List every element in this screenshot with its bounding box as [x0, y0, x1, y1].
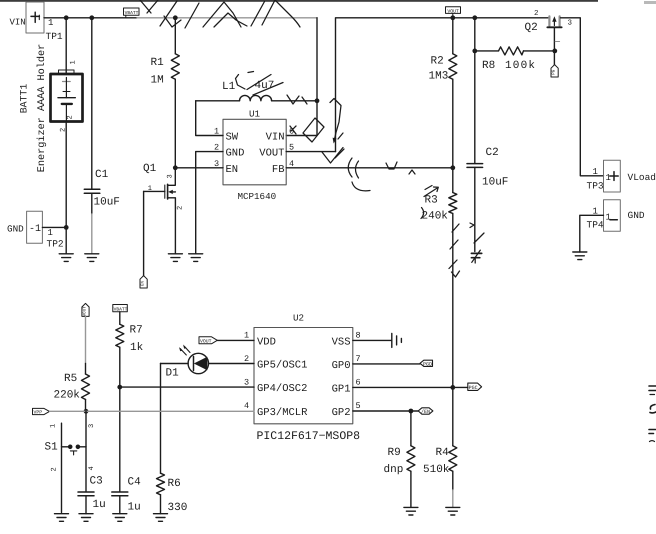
- svg-text:2: 2: [244, 354, 249, 364]
- resistor R4: [423, 446, 457, 508]
- svg-text:R1: R1: [151, 57, 165, 69]
- wire C2 bottom: [474, 167, 476, 251]
- wire scribble over 4u7: [236, 72, 284, 96]
- ground R6: [154, 514, 168, 522]
- net label VBATT above R7: [113, 305, 128, 313]
- svg-text:GP4/OSC2: GP4/OSC2: [257, 383, 307, 395]
- wire scribble arcs FB: [348, 158, 358, 178]
- resistor R6: [157, 364, 188, 515]
- svg-text:1M3: 1M3: [429, 71, 449, 83]
- svg-text:Energizer AAAA Holder: Energizer AAAA Holder: [36, 44, 48, 172]
- svg-text:2: 2: [534, 9, 539, 18]
- LED D1: [166, 345, 209, 380]
- svg-text:VOUT: VOUT: [200, 338, 212, 344]
- svg-text:1u: 1u: [128, 502, 141, 514]
- svg-text:TP2: TP2: [47, 238, 64, 249]
- wire TP4 to ground: [580, 215, 604, 252]
- right edge text fragments: [649, 386, 656, 442]
- node TP2: [64, 225, 69, 230]
- svg-text:3: 3: [88, 424, 96, 428]
- battery BATT1 pin 1 bracket: [59, 60, 78, 73]
- svg-text:3: 3: [167, 174, 175, 178]
- wire FB pin to divider: [286, 167, 453, 169]
- wire C2 top: [474, 18, 476, 164]
- wire Q1 gate to EN label: [143, 191, 145, 275]
- net flag VPP: [33, 408, 50, 415]
- wire SW pin to L1: [196, 101, 223, 136]
- svg-text:7: 7: [356, 354, 361, 364]
- wire scribble vee D: [164, 16, 181, 27]
- svg-text:FB: FB: [272, 164, 285, 176]
- wire C1 bottom stub: [91, 193, 93, 214]
- svg-text:/EN: /EN: [421, 409, 430, 415]
- wire scribble chevron G: [262, 0, 300, 27]
- resistor R9: [384, 411, 415, 507]
- ground Q1: [168, 254, 182, 262]
- testpoint TP3: [587, 160, 656, 192]
- scribble annotations: [140, 0, 484, 277]
- svg-text:R4: R4: [436, 447, 450, 459]
- resistor R2: [429, 18, 457, 168]
- node C1 top: [89, 15, 94, 20]
- svg-text:2: 2: [177, 206, 185, 210]
- resistor R5: [54, 364, 90, 412]
- net label VBATT top: [124, 8, 140, 18]
- svg-text:TP4: TP4: [587, 219, 604, 230]
- op-amp U1 MCP1640: [223, 109, 286, 203]
- wire scribble slash A: [140, 0, 151, 13]
- svg-text:10uF: 10uF: [94, 197, 120, 209]
- svg-text:Q2: Q2: [525, 22, 538, 34]
- svg-text:100k: 100k: [505, 60, 536, 72]
- node Q2 gate: [552, 49, 557, 54]
- wire VOUT net top: [336, 18, 549, 152]
- wire GND pin down: [196, 152, 223, 254]
- svg-text:GP5/OSC1: GP5/OSC1: [257, 360, 307, 372]
- wire battery top: [65, 18, 67, 74]
- svg-text:R6: R6: [168, 478, 181, 490]
- inductor L1: [196, 80, 317, 101]
- wire VOUT pin up: [286, 151, 335, 153]
- svg-text:R9: R9: [388, 447, 401, 459]
- svg-text:4: 4: [88, 466, 96, 470]
- wire GP5 through D1 to R6: [161, 363, 255, 365]
- testpoint TP2: [7, 211, 66, 249]
- svg-text:6: 6: [356, 377, 361, 387]
- svg-text:S1: S1: [45, 442, 59, 454]
- wire scribble arc below FB: [352, 182, 370, 191]
- svg-text:C4: C4: [128, 477, 142, 489]
- svg-text:GND: GND: [628, 210, 645, 221]
- svg-text:2: 2: [60, 128, 68, 132]
- svg-text:Q1: Q1: [143, 163, 157, 175]
- wire gray VPP net to GP3: [50, 410, 255, 412]
- ground TP4: [573, 252, 587, 260]
- svg-text:TP1: TP1: [46, 31, 63, 42]
- wire GP4 to R7: [120, 386, 254, 388]
- net label /EN: [418, 408, 433, 415]
- svg-text:1: 1: [606, 213, 611, 223]
- net label EN vertical: [140, 276, 147, 288]
- node R2 top: [450, 15, 455, 20]
- svg-text:3: 3: [244, 377, 249, 387]
- svg-text:VPP: VPP: [34, 410, 43, 416]
- svg-text:TP3: TP3: [587, 181, 604, 192]
- wire gray C1 to ground: [91, 214, 93, 254]
- net label VOUT vertical above R5: [82, 303, 89, 316]
- svg-text:330: 330: [168, 502, 188, 514]
- wire GP2 to /EN label: [353, 410, 418, 412]
- svg-text:PIC12F617−MSOP8: PIC12F617−MSOP8: [257, 430, 361, 443]
- wire scribble check VOUT pin: [322, 148, 343, 164]
- wire scribble slash B: [147, 0, 158, 13]
- svg-text:MCP1640: MCP1640: [238, 191, 277, 202]
- wire scribble diamond pin6: [303, 118, 324, 142]
- wire scribble hatch PGC wire: [449, 224, 460, 277]
- wire C3 to ground: [85, 496, 87, 514]
- node EN/R1/Q1: [173, 165, 178, 170]
- svg-text:GND: GND: [7, 224, 24, 235]
- wire scribble caret: [409, 170, 415, 174]
- wire battery bottom: [65, 122, 67, 228]
- node L1 right: [315, 98, 320, 103]
- wire scribble slash F2: [251, 2, 265, 27]
- svg-text:PGC: PGC: [469, 385, 478, 391]
- svg-text:PG: PG: [552, 69, 557, 75]
- svg-text:1: 1: [606, 173, 611, 183]
- testpoint TP4: [587, 200, 645, 232]
- wire scribble vee L1 right: [287, 95, 307, 104]
- wire scribble chevron E: [203, 2, 241, 27]
- node GP2 R9: [409, 409, 414, 414]
- svg-text:1: 1: [50, 424, 58, 428]
- svg-text:L1: L1: [222, 81, 236, 93]
- wire Q2 drain down right side: [561, 18, 604, 176]
- wire L1 node to VIN pin: [286, 101, 317, 136]
- wire gray VBATT net top: [137, 17, 317, 19]
- wire scribble chevron F: [214, 13, 247, 27]
- wire EN pin to node: [175, 167, 223, 169]
- wire Q2 gate lead: [553, 51, 555, 65]
- wire scribble u on FB: [386, 162, 397, 169]
- ground S1: [55, 514, 69, 522]
- svg-text:1: 1: [48, 18, 53, 28]
- svg-text:U2: U2: [293, 313, 304, 324]
- transistor Q2: [525, 9, 573, 51]
- wire scribble hook x335: [330, 99, 341, 141]
- capacitor C4: [112, 477, 141, 514]
- svg-text:GP3/MCLR: GP3/MCLR: [257, 407, 308, 419]
- svg-text:SW: SW: [226, 132, 239, 144]
- svg-text:VIN: VIN: [10, 17, 26, 27]
- svg-text:VBATT: VBATT: [114, 307, 128, 313]
- svg-text:2: 2: [51, 467, 59, 471]
- ground C3: [79, 514, 93, 522]
- wire TP1 to VBATT (net VBATT): [44, 17, 137, 19]
- wire gray VOUT label to R5: [85, 316, 87, 363]
- svg-text:1M: 1M: [151, 75, 164, 87]
- capacitor C2: [467, 147, 508, 189]
- resistor R3: [422, 168, 457, 446]
- svg-text:VOUT: VOUT: [83, 306, 88, 317]
- wire scribble tick C2: [470, 223, 474, 228]
- svg-text:1: 1: [148, 185, 152, 193]
- capacitor C3: [78, 476, 106, 512]
- svg-text:C2: C2: [486, 147, 499, 159]
- wire C1 top: [91, 18, 93, 189]
- resistor R8: [475, 47, 555, 72]
- svg-text:1: 1: [48, 228, 53, 238]
- ground C4: [113, 514, 127, 522]
- resistor R1: [151, 18, 180, 168]
- wire R7 to C4: [119, 387, 121, 492]
- svg-text:R2: R2: [431, 56, 444, 68]
- wire TP2 node to ground: [65, 227, 67, 253]
- net label PGC: [468, 383, 482, 391]
- svg-text:VDD: VDD: [257, 336, 276, 348]
- svg-text:510k: 510k: [423, 464, 450, 476]
- svg-text:240k: 240k: [422, 211, 449, 223]
- svg-text:GND: GND: [226, 148, 245, 160]
- net label Q2 gate vertical: [551, 65, 558, 77]
- svg-text:3: 3: [568, 19, 573, 28]
- wire scribble cross pin6: [290, 126, 296, 134]
- svg-text:5: 5: [356, 401, 361, 411]
- svg-text:220k: 220k: [54, 390, 81, 402]
- wire scribble slash C: [160, 1, 177, 26]
- wire scribble slash E2: [185, 3, 199, 28]
- svg-text:D1: D1: [166, 368, 180, 380]
- node R7 GP4: [117, 385, 122, 390]
- resistor R7: [116, 312, 144, 387]
- ground C1: [85, 254, 99, 262]
- svg-text:EN: EN: [141, 281, 146, 287]
- wire VSS to ground: [353, 339, 392, 341]
- svg-text:PGD: PGD: [423, 361, 432, 367]
- svg-text:EN: EN: [226, 164, 239, 176]
- wire scribble arrow R3: [424, 186, 438, 197]
- svg-text:VOUT: VOUT: [259, 148, 284, 160]
- net label PGD: [420, 360, 433, 367]
- net label VOUT top: [446, 7, 461, 18]
- svg-text:BATT1: BATT1: [19, 84, 30, 114]
- node VPP R5 S1: [84, 409, 89, 414]
- svg-text:U1: U1: [249, 109, 261, 120]
- wire scribble slash C2: [474, 233, 484, 243]
- svg-text:GP0: GP0: [332, 360, 351, 372]
- wire VPP node to C3: [85, 411, 87, 492]
- svg-text:8: 8: [356, 331, 361, 341]
- svg-text:C3: C3: [90, 476, 103, 488]
- svg-text:1u: 1u: [93, 499, 106, 511]
- node battery top: [64, 15, 69, 20]
- node C2 top: [472, 15, 477, 20]
- svg-text:GP2: GP2: [332, 407, 351, 419]
- svg-text:VLoad: VLoad: [628, 172, 656, 183]
- svg-text:dnp: dnp: [384, 464, 404, 476]
- svg-text:GP1: GP1: [332, 383, 351, 395]
- battery BATT1: [19, 44, 83, 172]
- svg-text:2: 2: [67, 115, 75, 119]
- svg-text:-1: -1: [29, 224, 41, 235]
- transistor Q1: [143, 163, 185, 254]
- ground battery: [59, 254, 73, 262]
- net flag VOUT to VDD: [199, 337, 217, 345]
- wire GP1 to PGC label: [353, 386, 468, 388]
- ground R4: [446, 507, 460, 515]
- svg-text:R3: R3: [425, 195, 438, 207]
- svg-text:1: 1: [244, 331, 249, 341]
- ground U1 GND: [189, 254, 203, 262]
- svg-text:1k: 1k: [130, 342, 144, 354]
- capacitor C1: [84, 169, 120, 209]
- top border crop line: [0, 0, 598, 2]
- node FB: [450, 165, 455, 170]
- svg-text:R7: R7: [130, 325, 143, 337]
- IC U2 PIC12F617: [254, 313, 360, 443]
- svg-text:C1: C1: [95, 169, 109, 181]
- svg-text:VIN: VIN: [266, 132, 285, 144]
- node R1 top: [173, 15, 178, 20]
- wire C4 to ground: [119, 496, 121, 514]
- wire scribble brace 240k: [421, 208, 424, 219]
- svg-text:R5: R5: [64, 373, 77, 385]
- svg-text:1: 1: [593, 167, 598, 177]
- switch S1: [45, 423, 97, 512]
- svg-text:4: 4: [244, 401, 249, 411]
- wire gray corner down to L1 node: [316, 18, 318, 101]
- svg-text:R8: R8: [482, 60, 495, 72]
- svg-text:1: 1: [70, 60, 78, 64]
- ground scribble under C2: [471, 253, 481, 257]
- ground VSS sideways: [392, 333, 402, 347]
- testpoint TP1: [10, 2, 63, 42]
- node GP1 divider: [450, 385, 455, 390]
- svg-text:VBATT: VBATT: [125, 10, 139, 16]
- svg-text:VSS: VSS: [332, 336, 351, 348]
- wire VOUT flag to VDD pin: [217, 339, 254, 341]
- wire scribble slash corner: [335, 149, 344, 158]
- wire GP0 to PGD label: [353, 363, 420, 365]
- svg-text:10uF: 10uF: [482, 177, 508, 189]
- node R8 left: [472, 49, 477, 54]
- ground R9: [404, 507, 418, 515]
